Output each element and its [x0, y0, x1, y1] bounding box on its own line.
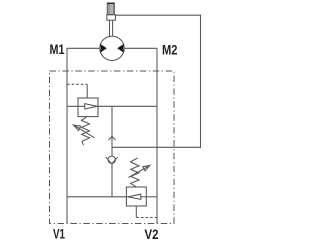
relief valve V1 arrow	[67, 104, 98, 109]
relief valve V2 body	[126, 187, 146, 206]
wire: V2 outlet to right main line	[146, 196, 157, 198]
pilot line V1 (dashed)	[67, 83, 87, 85]
adjuster arrow V2	[129, 165, 150, 177]
wire: motor right port to M2 line	[124, 47, 157, 49]
pilot line V1 vertical	[86, 84, 88, 98]
wire: drain line from shaft to right side down to check-valve node	[112, 15, 201, 147]
motor right triangle (filled)	[117, 44, 124, 53]
relief valve V1 body	[78, 98, 98, 117]
wire: left main line M1 down to V1 port	[66, 48, 68, 223]
wire: bottom line left of V2	[67, 196, 126, 198]
spring V2	[131, 158, 140, 187]
wire: V1 outlet to right main line	[98, 105, 157, 107]
flow arrow (up)	[109, 136, 116, 140]
pilot line V2 (dashed)	[136, 217, 157, 219]
wire: right main line M2 down to V2 port	[156, 48, 158, 223]
motor M (circle)	[100, 36, 124, 60]
valve block boundary (dash-dot)	[50, 71, 175, 224]
check valve (ball in seat)	[106, 156, 118, 164]
svg-text:V2: V2	[145, 227, 159, 242]
adjuster arrow V1	[73, 125, 94, 138]
shaft (double line)	[110, 20, 113, 36]
svg-text:M1: M1	[50, 42, 65, 57]
wire: motor left port to M1 line	[67, 47, 100, 49]
svg-text:M2: M2	[162, 43, 178, 58]
motor left triangle (filled)	[100, 44, 107, 53]
wire: center line from V1 outlet down to bottom line	[111, 106, 113, 197]
pilot line V2 vertical	[135, 206, 137, 218]
shaft collar	[107, 15, 116, 21]
splined shaft end (hatched)	[107, 3, 114, 15]
svg-text:V1: V1	[53, 227, 65, 242]
relief valve V2 arrow	[126, 194, 146, 199]
spring V1	[82, 117, 90, 146]
